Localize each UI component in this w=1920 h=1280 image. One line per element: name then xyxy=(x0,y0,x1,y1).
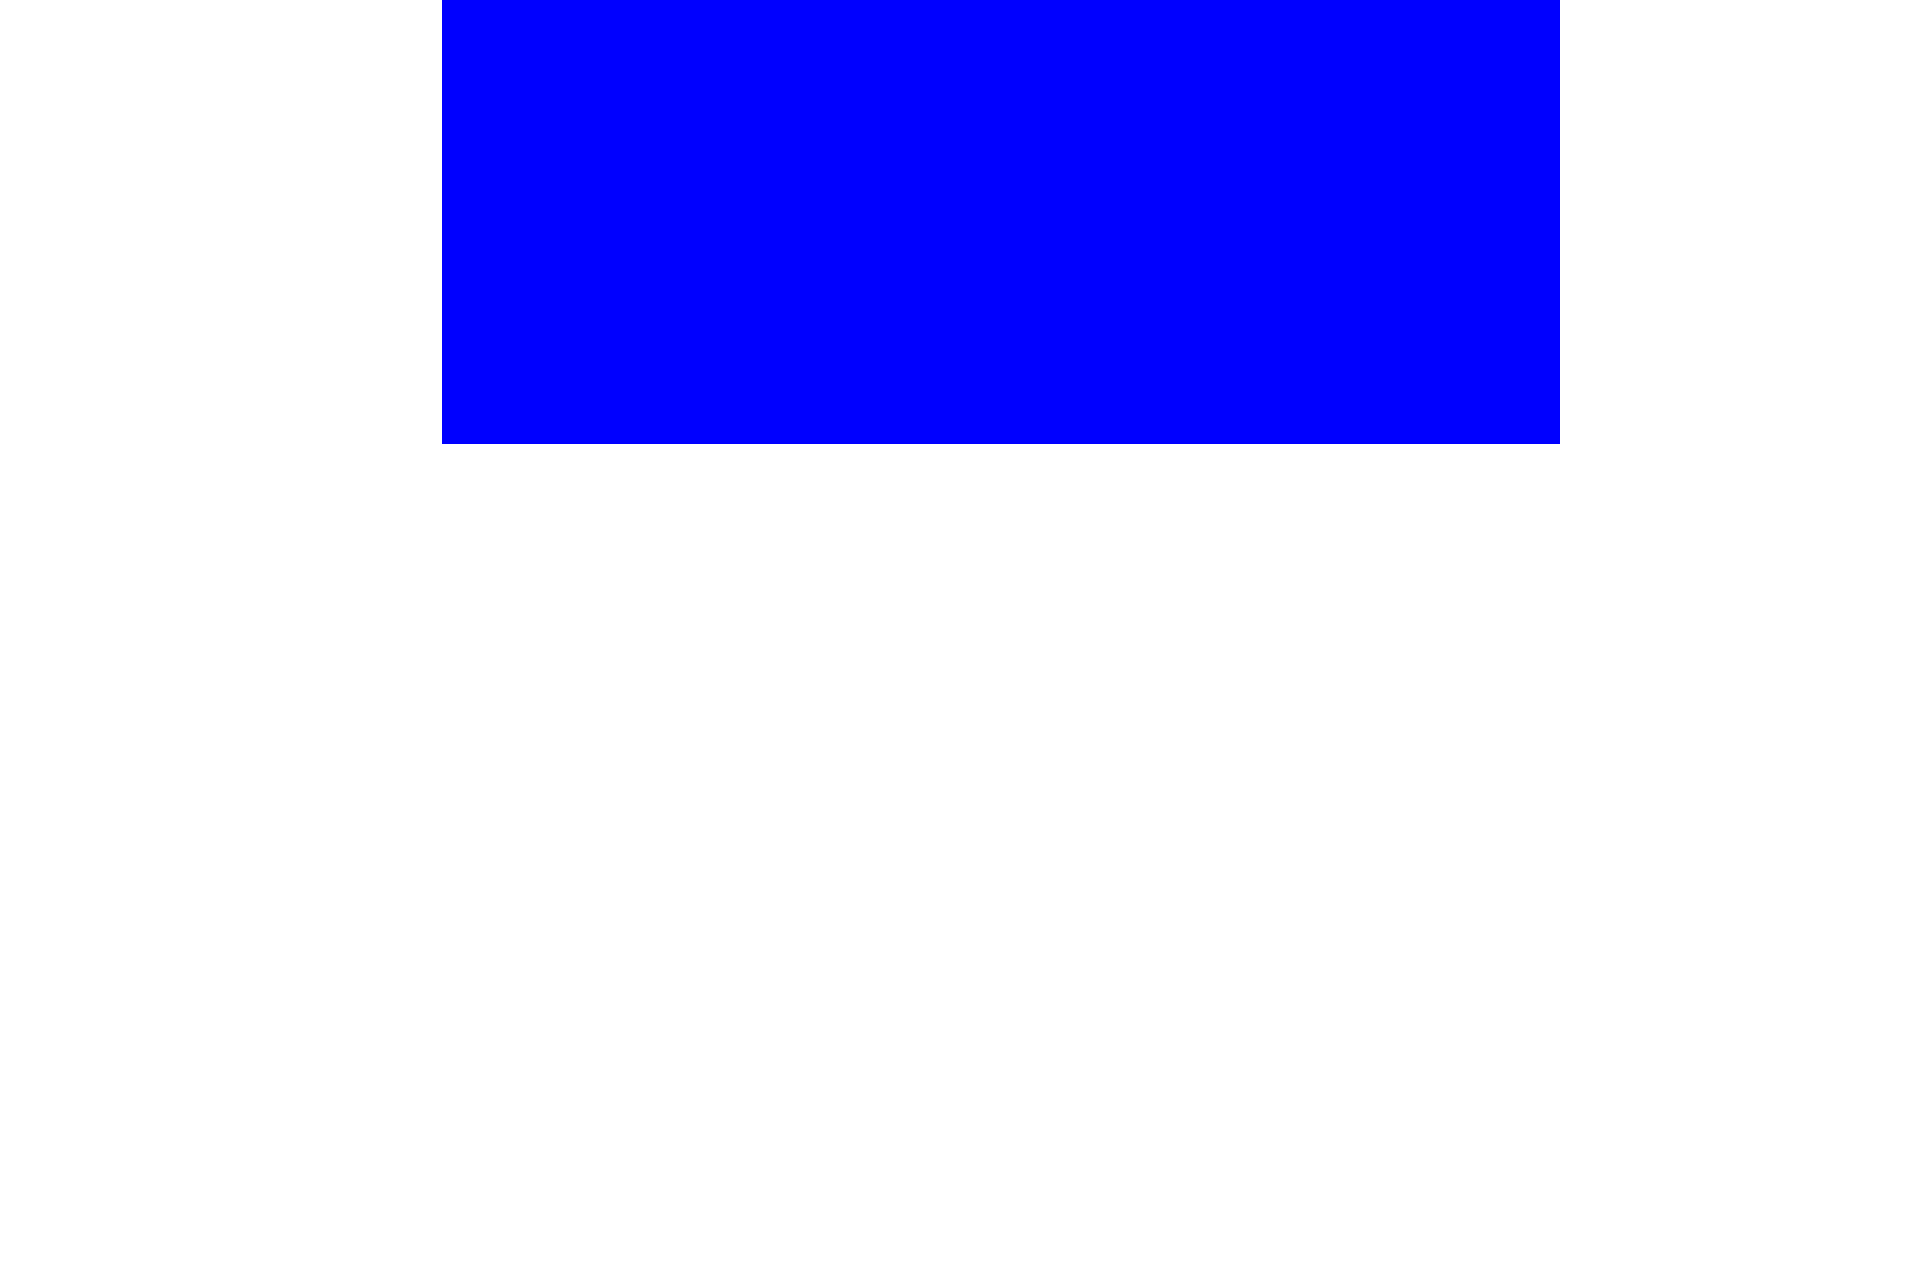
blue rectangle xyxy=(442,0,1560,444)
